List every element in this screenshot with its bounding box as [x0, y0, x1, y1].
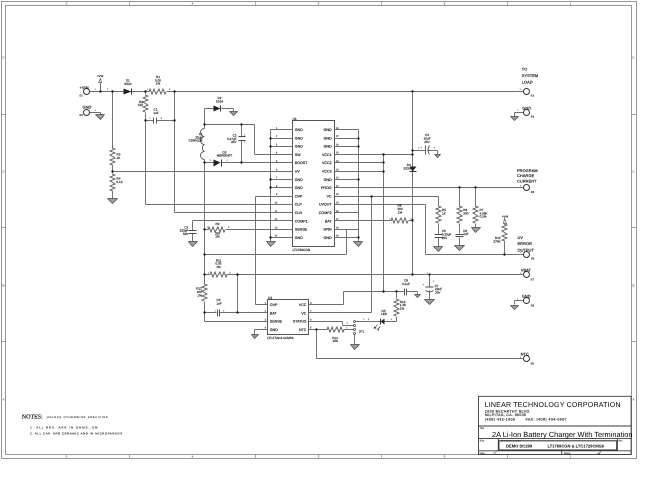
svg-text:1: 1	[149, 117, 150, 119]
svg-text:SS24: SS24	[124, 82, 132, 85]
svg-text:UV: UV	[518, 236, 524, 240]
svg-text:JP1: JP1	[359, 330, 364, 333]
svg-text:+: +	[423, 283, 425, 286]
svg-text:0.05: 0.05	[155, 79, 161, 82]
svg-text:E8: E8	[531, 304, 534, 307]
svg-text:1uF: 1uF	[216, 302, 221, 305]
svg-text:0.1uF: 0.1uF	[402, 282, 410, 285]
svg-text:E1: E1	[80, 94, 83, 97]
svg-text:5.1K: 5.1K	[117, 181, 123, 184]
svg-text:1: 1	[520, 88, 521, 90]
svg-text:L1: L1	[199, 133, 203, 136]
svg-text:2: 2	[223, 310, 224, 312]
svg-text:UVOUT: UVOUT	[319, 203, 332, 207]
svg-text:7: 7	[276, 177, 278, 180]
svg-text:11: 11	[275, 210, 278, 213]
svg-text:25V: 25V	[442, 236, 448, 239]
svg-text:UV: UV	[295, 170, 300, 174]
svg-text:E2: E2	[531, 94, 534, 97]
svg-text:1: 1	[520, 185, 521, 187]
svg-text:10: 10	[275, 202, 278, 205]
svg-text:BAT: BAT	[325, 219, 332, 223]
svg-text:D3: D3	[223, 151, 227, 154]
svg-text:D: D	[632, 56, 634, 59]
svg-text:E4: E4	[531, 115, 534, 118]
svg-text:B: B	[632, 284, 634, 287]
svg-text:25V: 25V	[231, 141, 237, 144]
svg-text:200: 200	[215, 232, 220, 235]
svg-text:COMP2: COMP2	[319, 211, 332, 215]
svg-text:PROGRAM: PROGRAM	[517, 169, 538, 173]
svg-text:50V: 50V	[183, 233, 189, 236]
svg-text:GND: GND	[522, 107, 531, 111]
svg-text:1: 1	[433, 280, 434, 282]
svg-text:A: A	[2, 398, 4, 401]
svg-text:25V: 25V	[435, 291, 441, 294]
svg-text:1: 1	[427, 272, 428, 274]
svg-text:C3: C3	[425, 134, 429, 137]
svg-text:R13: R13	[400, 300, 406, 303]
svg-text:1: 1	[363, 318, 364, 320]
svg-text:R3: R3	[117, 153, 121, 156]
svg-text:D1: D1	[126, 79, 130, 82]
svg-text:1630 McCARTHY BLVD.: 1630 McCARTHY BLVD.	[485, 410, 531, 414]
svg-text:1: 1	[207, 226, 208, 228]
svg-text:SPIN: SPIN	[323, 228, 331, 232]
svg-text:2: 2	[107, 88, 108, 90]
svg-text:1: 1	[208, 272, 209, 274]
svg-text:E3: E3	[80, 114, 83, 117]
svg-text:2: 2	[411, 218, 412, 220]
svg-text:1: 1	[520, 272, 521, 274]
svg-text:4: 4	[276, 152, 278, 155]
svg-text:270K: 270K	[493, 240, 500, 243]
svg-text:26: 26	[336, 143, 339, 146]
svg-text:1: 1	[147, 88, 148, 90]
svg-text:1: 1	[95, 109, 96, 111]
svg-text:+: +	[421, 146, 423, 149]
svg-text:D4: D4	[407, 164, 411, 167]
svg-text:220pF: 220pF	[180, 229, 189, 232]
svg-text:23: 23	[336, 168, 339, 171]
svg-text:CDRH125: CDRH125	[189, 139, 203, 142]
svg-text:LTC1729-8.4CMS8: LTC1729-8.4CMS8	[267, 337, 294, 340]
svg-text:3: 3	[265, 318, 267, 321]
svg-text:1: 1	[227, 159, 228, 161]
svg-text:C2: C2	[233, 134, 237, 137]
svg-text:1K: 1K	[442, 212, 446, 215]
svg-text:1. ALL RES. ARE IN OHMS, 5%: 1. ALL RES. ARE IN OHMS, 5%	[30, 426, 98, 429]
svg-text:SENSE: SENSE	[295, 228, 307, 232]
svg-text:17: 17	[336, 218, 339, 221]
svg-text:GND: GND	[295, 145, 303, 149]
svg-text:GND: GND	[295, 128, 303, 132]
svg-text:0.33uF: 0.33uF	[442, 233, 451, 236]
svg-text:+VIN: +VIN	[80, 86, 89, 90]
svg-text:Sheet: Sheet	[564, 452, 570, 455]
svg-text:VCC1: VCC1	[322, 153, 332, 157]
svg-text:4: 4	[192, 455, 194, 458]
svg-text:9: 9	[276, 193, 278, 196]
svg-text:GND: GND	[522, 295, 531, 299]
svg-text:R12: R12	[196, 287, 202, 290]
svg-text:ERROR: ERROR	[518, 242, 532, 246]
svg-text:Size: Size	[480, 439, 485, 442]
svg-text:GND: GND	[270, 328, 278, 332]
svg-text:13: 13	[275, 226, 278, 229]
svg-text:CURRENT: CURRENT	[517, 179, 537, 183]
svg-text:E9: E9	[531, 362, 534, 365]
svg-text:GND: GND	[324, 145, 332, 149]
svg-text:7: 7	[310, 310, 312, 313]
svg-text:1%: 1%	[215, 235, 219, 238]
svg-text:1%: 1%	[156, 82, 160, 85]
svg-text:+VW: +VW	[97, 75, 104, 78]
svg-text:R4: R4	[117, 177, 121, 180]
svg-text:1%: 1%	[398, 211, 402, 214]
svg-text:BAT: BAT	[270, 311, 277, 315]
svg-text:1%: 1%	[197, 294, 201, 297]
svg-text:VBAT: VBAT	[521, 268, 531, 272]
svg-text:GND: GND	[324, 128, 332, 132]
svg-text:GND: GND	[324, 178, 332, 182]
svg-text:1uF: 1uF	[153, 111, 158, 114]
svg-text:1: 1	[112, 145, 113, 147]
svg-text:OUTPUT: OUTPUT	[518, 248, 535, 252]
svg-text:22uH: 22uH	[195, 136, 202, 139]
svg-text:C: C	[2, 170, 4, 173]
svg-text:300: 300	[463, 212, 468, 215]
svg-text:4: 4	[192, 2, 194, 5]
svg-text:1: 1	[95, 88, 96, 90]
svg-text:OVP: OVP	[270, 303, 278, 307]
svg-text:VCC: VCC	[299, 303, 307, 307]
svg-text:Title: Title	[480, 427, 485, 430]
svg-text:NTC: NTC	[521, 353, 529, 357]
svg-text:U2: U2	[268, 296, 272, 300]
svg-text:C4: C4	[184, 226, 188, 229]
svg-text:C1: C1	[154, 108, 158, 111]
svg-text:2: 2	[347, 322, 348, 324]
svg-text:25: 25	[336, 152, 339, 155]
svg-text:LT1769CGN: LT1769CGN	[293, 248, 311, 252]
svg-text:15: 15	[336, 235, 339, 238]
svg-text:NOTES:: NOTES:	[22, 414, 43, 421]
svg-text:MBR0540T: MBR0540T	[217, 154, 232, 157]
svg-text:6: 6	[276, 168, 278, 171]
svg-text:U1: U1	[293, 117, 297, 121]
svg-text:1: 1	[570, 2, 572, 5]
svg-text:CLP: CLP	[295, 203, 302, 207]
svg-text:5: 5	[310, 327, 312, 330]
svg-text:GND: GND	[295, 178, 303, 182]
svg-text:2: 2	[444, 455, 446, 458]
svg-text:12: 12	[275, 218, 278, 221]
svg-text:1.4K: 1.4K	[400, 304, 406, 307]
svg-text:LINEAR TECHNOLOGY CORPORATION: LINEAR TECHNOLOGY CORPORATION	[485, 402, 621, 410]
svg-text:R11: R11	[216, 259, 222, 262]
svg-text:1: 1	[244, 134, 245, 136]
svg-text:VC: VC	[301, 311, 306, 315]
svg-text:D5: D5	[382, 309, 386, 312]
svg-text:2: 2	[169, 88, 170, 90]
svg-text:5: 5	[66, 455, 68, 458]
svg-text:GND: GND	[295, 136, 303, 140]
svg-text:R2: R2	[139, 100, 143, 103]
svg-text:LT1769CGN & LTC1729CMS8: LT1769CGN & LTC1729CMS8	[548, 444, 605, 449]
svg-text:2: 2	[434, 147, 435, 149]
svg-text:SS24: SS24	[216, 100, 224, 103]
svg-text:1: 1	[389, 218, 390, 220]
svg-text:2: 2	[265, 310, 267, 313]
svg-text:LOAD: LOAD	[522, 80, 533, 84]
svg-text:GND: GND	[295, 186, 303, 190]
svg-text:R1: R1	[156, 76, 160, 79]
svg-text:PROG: PROG	[321, 186, 332, 190]
svg-text:+VW: +VW	[502, 215, 509, 218]
svg-text:100: 100	[197, 291, 202, 294]
svg-text:1: 1	[265, 302, 267, 305]
svg-text:Document Number: Document Number	[501, 439, 521, 442]
svg-text:GND: GND	[324, 136, 332, 140]
svg-text:B: B	[2, 284, 4, 287]
svg-text:1uF: 1uF	[463, 233, 468, 236]
svg-text:24: 24	[336, 160, 339, 163]
svg-text:1: 1	[517, 109, 518, 111]
svg-text:4: 4	[265, 327, 267, 330]
svg-text:18: 18	[336, 210, 339, 213]
svg-text:4.99K: 4.99K	[480, 212, 488, 215]
svg-text:0.05: 0.05	[215, 262, 221, 265]
svg-text:NTC: NTC	[299, 328, 306, 332]
svg-text:200: 200	[397, 208, 402, 211]
svg-text:C8: C8	[404, 279, 408, 282]
svg-text:21: 21	[336, 185, 339, 188]
svg-text:2. ALL CAP. ARE CERAMIC AND I: 2. ALL CAP. ARE CERAMIC AND IN MICROFARA…	[30, 432, 123, 435]
svg-text:E7: E7	[531, 278, 534, 281]
svg-text:2A Li-Ion Battery Charger With: 2A Li-Ion Battery Charger With Terminati…	[492, 431, 633, 439]
svg-text:8: 8	[310, 302, 312, 305]
svg-text:GND: GND	[295, 236, 303, 240]
svg-text:2: 2	[210, 159, 211, 161]
svg-text:2: 2	[444, 2, 446, 5]
svg-text:2: 2	[230, 272, 231, 274]
svg-text:1: 1	[570, 455, 572, 458]
svg-text:22uF: 22uF	[435, 288, 442, 291]
svg-text:CLN: CLN	[295, 211, 302, 215]
svg-text:20: 20	[336, 193, 339, 196]
svg-text:1: 1	[520, 356, 521, 358]
svg-text:2: 2	[368, 318, 369, 320]
svg-text:BOOST: BOOST	[295, 161, 308, 165]
svg-text:SYSTEM: SYSTEM	[522, 74, 539, 78]
svg-text:8: 8	[276, 185, 278, 188]
svg-text:OVP: OVP	[295, 195, 303, 199]
svg-text:E6: E6	[531, 257, 534, 260]
svg-text:1: 1	[215, 310, 216, 312]
svg-text:1: 1	[520, 251, 521, 253]
svg-text:SENSE: SENSE	[270, 320, 282, 324]
svg-text:6: 6	[310, 318, 312, 321]
svg-text:0.47uF: 0.47uF	[227, 137, 236, 140]
svg-text:MILPITAS, CA. 95035: MILPITAS, CA. 95035	[485, 413, 526, 417]
svg-text:510: 510	[138, 104, 143, 107]
svg-text:25V: 25V	[424, 140, 430, 143]
svg-text:SW: SW	[295, 153, 301, 157]
svg-text:Date: Date	[480, 452, 485, 455]
svg-text:2: 2	[161, 117, 162, 119]
svg-text:27: 27	[336, 135, 339, 138]
svg-text:19: 19	[336, 202, 339, 205]
svg-text:C7: C7	[435, 284, 439, 287]
svg-text:C9: C9	[217, 299, 221, 302]
svg-text:2: 2	[244, 141, 245, 143]
svg-text:3: 3	[318, 2, 320, 5]
svg-text:1: 1	[517, 298, 518, 300]
svg-text:GND: GND	[324, 236, 332, 240]
svg-text:(408) 432-1900 FAX: (408: (408) 432-1900 FAX: (408) 434-0507	[485, 418, 567, 422]
svg-text:10uF: 10uF	[424, 137, 431, 140]
svg-text:UNLESS OTHERWISE SPECIFIED: UNLESS OTHERWISE SPECIFIED	[47, 416, 109, 419]
svg-text:D2: D2	[218, 97, 222, 100]
svg-text:1: 1	[418, 147, 419, 149]
svg-text:CHARGE: CHARGE	[517, 174, 534, 178]
svg-text:1: 1	[391, 318, 392, 320]
svg-text:2: 2	[276, 135, 278, 138]
svg-text:C5: C5	[442, 230, 446, 233]
svg-text:R7: R7	[480, 209, 484, 212]
svg-text:GND: GND	[83, 105, 92, 109]
svg-text:SS24: SS24	[403, 167, 411, 170]
svg-text:16: 16	[336, 226, 339, 229]
svg-text:3: 3	[276, 143, 278, 146]
svg-text:1%: 1%	[216, 266, 220, 269]
svg-text:VCC2: VCC2	[322, 161, 332, 165]
svg-text:28: 28	[336, 127, 339, 130]
svg-text:Rev: Rev	[618, 439, 622, 442]
svg-text:VC: VC	[327, 195, 332, 199]
svg-text:R10: R10	[495, 237, 501, 240]
svg-text:R9: R9	[216, 223, 220, 226]
svg-text:TO: TO	[522, 68, 528, 72]
svg-text:DEMO DC299: DEMO DC299	[506, 444, 532, 449]
svg-text:R14: R14	[332, 336, 338, 339]
svg-text:1K: 1K	[117, 156, 121, 159]
svg-text:COMP1: COMP1	[295, 219, 308, 223]
svg-text:5: 5	[66, 2, 68, 5]
svg-text:R6: R6	[463, 209, 467, 212]
svg-text:D: D	[2, 56, 4, 59]
svg-text:1: 1	[346, 327, 347, 329]
svg-text:R5: R5	[442, 209, 446, 212]
svg-text:E5: E5	[531, 191, 534, 194]
svg-text:VCC3: VCC3	[322, 170, 332, 174]
svg-text:1: 1	[276, 127, 278, 130]
svg-text:1%: 1%	[400, 307, 404, 310]
svg-text:0.1%: 0.1%	[480, 215, 487, 218]
svg-text:10K: 10K	[333, 340, 339, 343]
svg-text:C: C	[632, 170, 634, 173]
svg-text:22: 22	[336, 177, 339, 180]
svg-text:STATUS: STATUS	[293, 320, 307, 324]
svg-text:C6: C6	[463, 229, 467, 232]
svg-text:LED: LED	[381, 313, 387, 316]
svg-text:3: 3	[318, 455, 320, 458]
svg-text:A: A	[632, 398, 634, 401]
svg-text:2: 2	[228, 226, 229, 228]
svg-text:14: 14	[275, 235, 278, 238]
svg-text:R8: R8	[398, 204, 402, 207]
svg-text:5: 5	[276, 160, 278, 163]
